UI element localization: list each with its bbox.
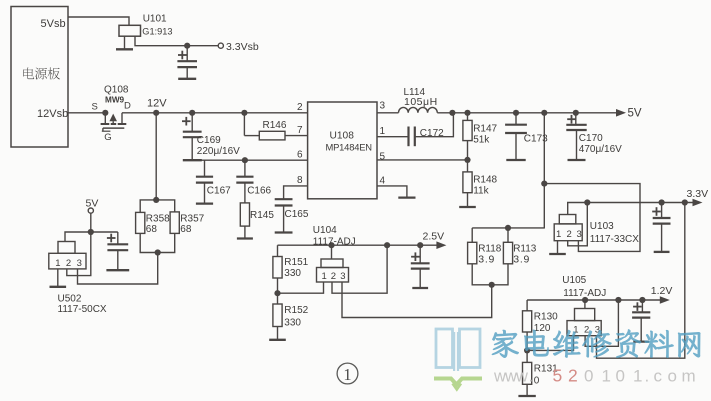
svg-text:3.9: 3.9 (478, 253, 495, 265)
svg-text:3: 3 (340, 271, 345, 282)
svg-text:C167: C167 (207, 186, 231, 197)
svg-text:1: 1 (343, 365, 351, 384)
svg-text:5V: 5V (628, 108, 642, 120)
svg-text:330: 330 (284, 318, 301, 329)
svg-text:1.2V: 1.2V (651, 285, 673, 297)
svg-text:12Vsb: 12Vsb (37, 108, 68, 120)
svg-text:1117-33CX: 1117-33CX (590, 234, 639, 245)
svg-text:R358: R358 (146, 214, 170, 225)
svg-text:G1:913: G1:913 (142, 27, 172, 37)
svg-text:U108: U108 (330, 131, 355, 142)
svg-text:0: 0 (534, 376, 540, 387)
svg-text:m: m (682, 367, 696, 386)
svg-text:2: 2 (66, 258, 71, 269)
svg-text:R130: R130 (534, 312, 558, 323)
svg-text:1: 1 (55, 258, 60, 269)
svg-text:D: D (124, 101, 131, 112)
svg-text:2: 2 (568, 366, 578, 386)
svg-text:R151: R151 (284, 257, 308, 268)
svg-text:330: 330 (284, 268, 301, 279)
svg-text:8: 8 (297, 175, 303, 186)
svg-text:C169: C169 (197, 135, 221, 146)
svg-text:C165: C165 (285, 209, 309, 220)
svg-text:1: 1 (380, 126, 386, 137)
svg-text:U103: U103 (590, 221, 614, 232)
svg-text:o: o (668, 367, 677, 386)
svg-text:5: 5 (380, 152, 386, 163)
svg-text:2: 2 (567, 229, 572, 240)
svg-text:c: c (654, 367, 663, 386)
svg-text:0: 0 (584, 367, 593, 386)
svg-text:3: 3 (77, 258, 82, 269)
svg-text:4: 4 (380, 176, 386, 187)
svg-text:R147: R147 (473, 124, 497, 135)
svg-text:R357: R357 (180, 214, 204, 225)
svg-text:R148: R148 (473, 175, 497, 186)
svg-text:1117-ADJ: 1117-ADJ (313, 236, 356, 247)
svg-text:3.3Vsb: 3.3Vsb (226, 41, 259, 53)
svg-text:5: 5 (553, 366, 563, 386)
svg-text:U101: U101 (143, 14, 167, 25)
svg-text:12V: 12V (147, 98, 167, 110)
svg-text:0: 0 (616, 367, 625, 386)
svg-text:G: G (104, 132, 111, 143)
svg-text:C170: C170 (579, 133, 603, 144)
svg-text:11k: 11k (473, 186, 489, 197)
svg-text:2: 2 (331, 271, 336, 282)
svg-text:3.3V: 3.3V (687, 188, 709, 200)
svg-text:w: w (515, 368, 528, 386)
svg-text:51k: 51k (473, 135, 490, 146)
svg-text:470μ/16V: 470μ/16V (579, 144, 622, 155)
svg-text:C172: C172 (420, 128, 444, 139)
svg-text:68: 68 (146, 224, 158, 235)
svg-text:105μH: 105μH (404, 96, 438, 108)
svg-text:1: 1 (556, 229, 561, 240)
svg-text:3.9: 3.9 (513, 253, 530, 265)
svg-text:120: 120 (534, 323, 551, 334)
svg-text:MW9: MW9 (105, 96, 125, 105)
svg-text:68: 68 (180, 224, 192, 235)
svg-text:MP1484EN: MP1484EN (326, 142, 372, 153)
svg-text:.: . (645, 367, 650, 386)
svg-text:2.5V: 2.5V (423, 231, 445, 243)
svg-text:1: 1 (633, 367, 642, 386)
svg-text:R152: R152 (284, 305, 308, 316)
svg-text:5Vsb: 5Vsb (41, 18, 66, 30)
svg-text:S: S (92, 102, 98, 113)
svg-text:220μ/16V: 220μ/16V (197, 146, 240, 157)
svg-text:U104: U104 (313, 225, 337, 236)
svg-text:C166: C166 (247, 186, 271, 197)
svg-text:.: . (529, 368, 534, 386)
svg-text:R145: R145 (250, 210, 274, 221)
svg-text:R146: R146 (263, 120, 287, 131)
svg-text:6: 6 (297, 150, 303, 161)
svg-text:1: 1 (602, 367, 611, 386)
svg-text:3: 3 (577, 229, 582, 240)
svg-text:Q108: Q108 (104, 85, 129, 96)
svg-text:1: 1 (322, 271, 327, 282)
svg-text:7: 7 (297, 125, 303, 136)
svg-text:2: 2 (297, 102, 303, 113)
svg-text:3: 3 (380, 101, 386, 112)
svg-text:U105: U105 (562, 275, 586, 286)
svg-text:1117-50CX: 1117-50CX (58, 304, 107, 315)
